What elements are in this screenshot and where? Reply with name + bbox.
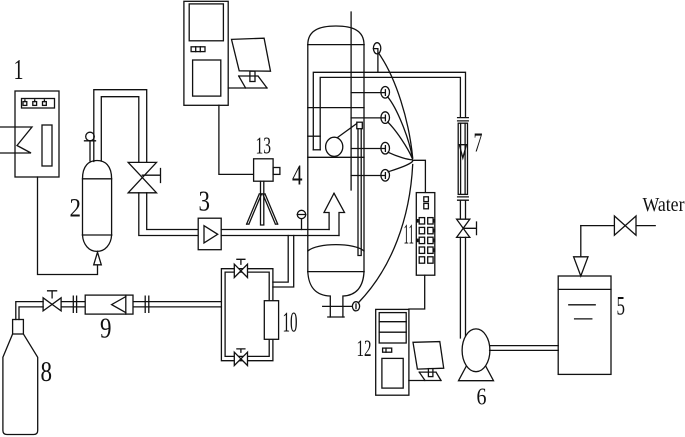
pressure gauge on vessel 2 — [85, 132, 96, 161]
pipe rotameter to valve — [460, 200, 465, 219]
svg-text:10: 10 — [283, 308, 298, 339]
svg-text:11: 11 — [404, 220, 415, 251]
flange below rotameter — [458, 197, 469, 200]
column vessel U4 shell — [308, 26, 364, 272]
svg-text:2: 2 — [70, 194, 82, 223]
water supply line — [581, 225, 655, 227]
column tray 2 — [308, 135, 320, 137]
thermocouple T3 — [351, 112, 389, 124]
rotameter U7 — [458, 123, 467, 194]
pipe valve to pump3 — [139, 193, 198, 236]
svg-text:4: 4 — [292, 161, 303, 192]
inlet up arrow inside column — [324, 193, 345, 235]
sensor wire curve from T2 — [388, 97, 413, 158]
thermocouple T4 — [351, 142, 389, 154]
camera U13 — [254, 159, 280, 181]
column bottom line — [308, 271, 364, 273]
sight tube — [357, 122, 363, 255]
pump U6 — [459, 329, 494, 381]
control box U1 — [15, 91, 59, 177]
buffer vessel U10 — [264, 301, 278, 340]
heater element on box 1 — [0, 127, 32, 153]
valve V1 — [128, 162, 160, 192]
pressure gauge at column inlet — [297, 210, 305, 229]
sensor wire curve from T5 — [388, 162, 412, 172]
svg-text:7: 7 — [474, 128, 483, 158]
wire node to data logger — [413, 160, 426, 192]
data logger U11 — [416, 193, 435, 276]
pipe pump3 to column — [221, 230, 339, 236]
camera tripod — [247, 181, 278, 225]
instrument cabinet — [184, 1, 228, 105]
svg-text:Water: Water — [643, 194, 685, 216]
sensor wire curve from T4 — [388, 152, 412, 160]
recirculation loop pipe — [221, 269, 273, 361]
wire cabinet to camera — [219, 105, 254, 174]
computer tower U12 — [376, 309, 409, 395]
wire box1 to vessel2 — [38, 177, 102, 275]
pipe pump to tank — [490, 346, 559, 351]
water tank U5 — [558, 276, 611, 374]
svg-text:6: 6 — [477, 385, 487, 411]
vessel C2 — [83, 161, 112, 252]
thermocouple T1 — [373, 43, 380, 73]
sight tube link line — [338, 124, 357, 138]
shelf line from cabinet — [228, 87, 267, 89]
valve V9 water — [614, 216, 636, 235]
monitor of computer 12 — [409, 342, 444, 381]
svg-text:3: 3 — [199, 186, 211, 218]
pipe vessel2 top to valve — [94, 90, 147, 163]
gas cylinder U8 — [3, 320, 38, 435]
internal dip tube and line to rotameter — [313, 72, 465, 150]
flange pair left of U9 — [73, 296, 76, 312]
monitor beside cabinet — [232, 38, 271, 88]
column bottom head and neck — [308, 272, 364, 317]
svg-text:5: 5 — [617, 292, 626, 321]
thermocouple T5 — [351, 170, 389, 182]
internal sparger ellipse — [326, 137, 343, 156]
valve V8 at cylinder — [43, 291, 61, 311]
water down pipe — [580, 226, 582, 257]
valve V3 on loop bottom — [234, 349, 247, 366]
water arrow into tank — [574, 257, 588, 276]
flange pair right of U9 — [145, 296, 149, 312]
valve V7 — [457, 219, 477, 237]
column internal shaft line — [350, 12, 352, 190]
branch tee down to loop — [273, 236, 294, 288]
thermocouple T6 at column neck — [323, 302, 360, 311]
pump U3 — [198, 218, 221, 250]
flange above rotameter — [458, 118, 469, 121]
pipe valve to cylinder 8 — [16, 302, 43, 320]
flowmeter U9 — [85, 295, 133, 314]
rotameter pipe top corner — [0, 0, 1, 1]
column section line — [308, 156, 364, 158]
sensor wire curve from T1 — [379, 53, 413, 158]
thermocouple T2 — [351, 87, 389, 99]
svg-text:1: 1 — [14, 55, 24, 86]
valve V2 on loop top — [234, 259, 247, 277]
wire logger to computer 12 — [409, 275, 425, 309]
pipe valve to pump 6 — [460, 237, 465, 338]
svg-text:12: 12 — [357, 336, 372, 361]
sensor wire curve from T3 — [388, 122, 413, 159]
gas pipe from valve to loop — [61, 302, 221, 307]
svg-text:9: 9 — [100, 313, 112, 345]
column tray 1 — [308, 107, 364, 109]
svg-text:8: 8 — [41, 356, 53, 388]
column internal arc — [308, 245, 364, 251]
sensor wire curve from T6 — [359, 165, 413, 303]
svg-text:13: 13 — [256, 134, 272, 160]
